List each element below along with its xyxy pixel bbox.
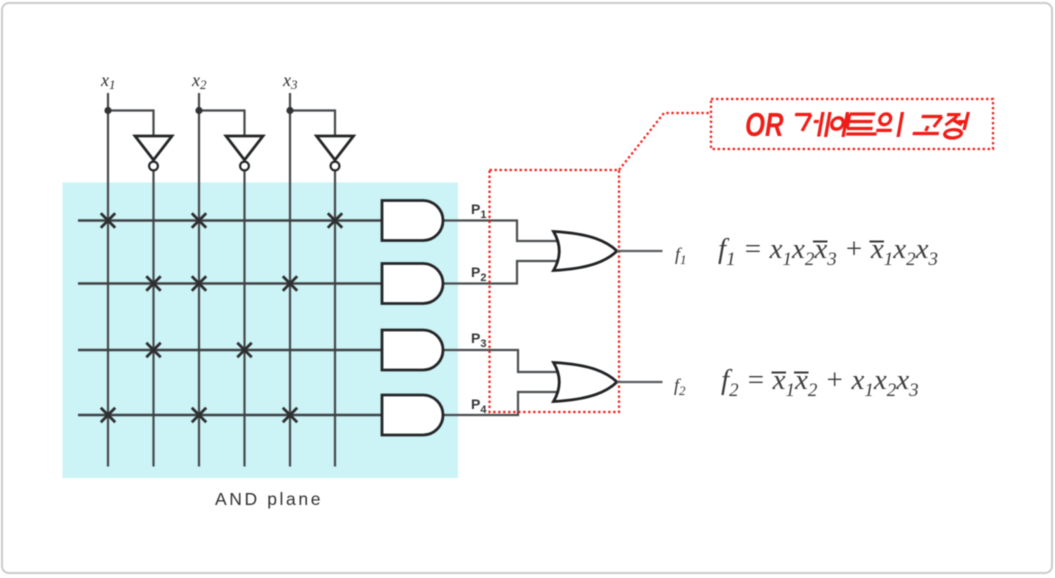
fuse x3 P4 — [283, 408, 297, 422]
svg-text:f1: f1 — [675, 244, 687, 267]
svg-text:f2 = x1x2 + x1x2x3: f2 = x1x2 + x1x2x3 — [721, 364, 919, 401]
callout hangul UI — [875, 112, 902, 137]
fuse x3 P2 — [283, 276, 297, 290]
svg-text:P3: P3 — [471, 330, 486, 350]
callout hangul GE — [791, 112, 830, 137]
inverter x1 — [135, 136, 172, 170]
wire P1 to OR1 upper input — [443, 221, 557, 242]
callout hangul GO — [913, 117, 942, 134]
wire product row P2 — [78, 282, 382, 284]
AND plane region — [63, 183, 459, 479]
inverter x3 — [317, 136, 354, 170]
wire product row P1 — [78, 219, 382, 221]
wire input x1 vertical — [107, 93, 109, 467]
wire P2 to OR1 lower input — [443, 261, 557, 284]
wire complement x1 vertical — [152, 171, 154, 467]
AND gate G2 — [382, 264, 443, 304]
wire input x3 vertical — [289, 93, 291, 467]
node x2 label — [191, 70, 207, 92]
AND gate G1 — [382, 201, 443, 241]
wire product row P3 — [78, 349, 382, 351]
wire OR2 output f2 — [617, 381, 663, 383]
wire OR1 output f1 — [617, 250, 663, 252]
wire product row P4 — [78, 414, 382, 416]
equation f1 — [718, 233, 938, 270]
wire complement x3 vertical — [334, 171, 336, 467]
junction x1 — [104, 107, 111, 114]
fuse x2 P4 — [192, 408, 206, 422]
fuse xb3 P1 — [328, 213, 342, 227]
callout hangul I — [829, 112, 847, 137]
callout hangul TEU — [846, 114, 880, 134]
wire branch x3 to inverter — [290, 111, 335, 137]
fuse x1 P1 — [101, 213, 115, 227]
wire P4 to OR2 lower input — [443, 392, 557, 415]
node x1 label — [100, 70, 116, 92]
equation f2 — [721, 364, 919, 401]
OR plane dashed box — [490, 170, 620, 412]
fuse x2 P2 — [192, 276, 206, 290]
OR gate U2 — [554, 363, 618, 402]
wire complement x2 vertical — [243, 171, 245, 467]
fuse x2 P1 — [192, 213, 206, 227]
callout box — [711, 99, 993, 149]
wire P3 to OR2 upper input — [443, 350, 557, 372]
svg-text:P4: P4 — [471, 396, 487, 416]
fuse xb2 P3 — [237, 343, 251, 357]
fuse x1 P4 — [101, 408, 115, 422]
svg-text:P1: P1 — [471, 201, 486, 221]
wire branch x1 to inverter — [108, 111, 154, 137]
svg-text:P2: P2 — [471, 264, 486, 284]
node x3 label — [282, 70, 298, 92]
fuse xb1 P3 — [146, 343, 160, 357]
svg-text:f2: f2 — [674, 375, 686, 398]
callout hangul JEONG — [943, 112, 968, 138]
svg-text:AND plane: AND plane — [215, 489, 323, 509]
svg-text:f1 = x1x2x3 + x1x2x3: f1 = x1x2x3 + x1x2x3 — [718, 233, 938, 270]
svg-text:x1: x1 — [100, 70, 116, 92]
OR gate U1 — [554, 232, 618, 271]
AND gate G4 — [382, 395, 443, 435]
svg-text:x3: x3 — [282, 70, 298, 92]
callout leader dashed — [619, 113, 710, 170]
fuse xb1 P2 — [146, 276, 160, 290]
wire input x2 vertical — [198, 93, 200, 467]
AND gate G3 — [382, 330, 443, 370]
svg-text:OR: OR — [745, 107, 784, 144]
junction x3 — [286, 107, 293, 114]
inverter x2 — [226, 136, 263, 170]
svg-text:x2: x2 — [191, 70, 207, 92]
junction x2 — [195, 107, 202, 114]
wire branch x2 to inverter — [199, 111, 245, 137]
